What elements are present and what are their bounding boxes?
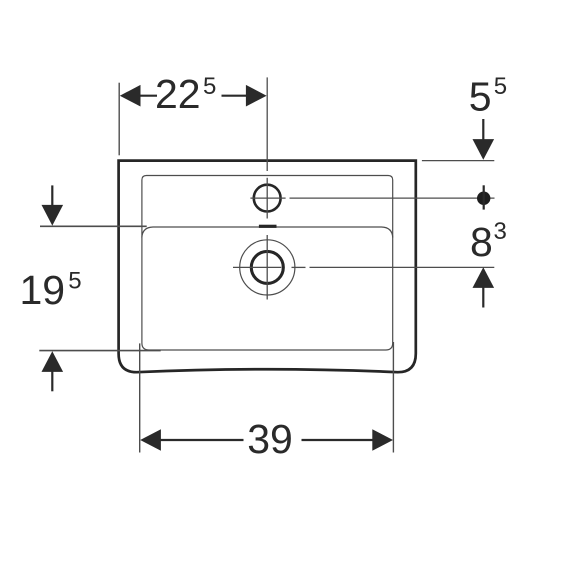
drain inner circle [251,251,283,283]
faucet vertical centerline lower part [266,178,268,219]
dimension 8.3 arrowhead [473,267,495,288]
svg-text:5: 5 [68,268,81,295]
dimension 19.5 bottom reference line [39,350,160,352]
dimension 39 left extension line [139,343,141,452]
basin front edge [142,227,393,238]
dimension 39 left arrowhead [140,429,161,451]
dimension 39 right arrowhead [372,429,393,451]
top edge right extension line [422,160,494,162]
svg-text:39: 39 [247,416,293,462]
svg-text:3: 3 [494,218,507,245]
svg-text:8: 8 [470,219,493,265]
dimension 22.5 line right segment [222,95,248,97]
dimension 19.5 bottom arrowhead [42,351,64,372]
drain horizontal centerline short dash [292,266,306,268]
dimension 39 line right segment [302,439,374,441]
dimension 22.5 line left segment [140,95,158,97]
faucet vertical centerline [266,77,268,171]
dimension 8.3 arrow stem [482,286,484,308]
washbasin outer outline [119,161,416,373]
dimension 22.5 left extension line [118,83,120,156]
dimension 19.5 top arrowhead [42,205,64,226]
overflow slot dash [259,225,277,228]
svg-text:19: 19 [20,267,66,313]
dimension 19.5 top arrow stem [51,185,53,206]
dimension 19.5 top reference line [40,225,147,227]
dimension 22.5 right arrowhead [246,85,267,107]
faucet horizontal crosshair [250,197,285,199]
faucet reference dot [477,192,490,205]
washbasin rim inner line [142,176,393,351]
faucet level line to right reference dot [290,197,495,199]
dimension 39 right extension line [392,342,394,453]
faucet reference dot vertical stub [483,185,485,209]
dimension 5.5 arrowhead [473,139,495,160]
faucet hole circle [254,185,281,212]
dimension 39 line left segment [160,439,244,441]
svg-text:22: 22 [155,71,201,117]
svg-text:5: 5 [469,74,492,120]
drain horizontal centerline segment left [233,266,281,268]
drain outer circle [240,240,295,295]
dimension 5.5 arrow stem [482,119,484,141]
dimension 22.5 left arrowhead [120,85,141,107]
dimension 19.5 bottom arrow stem [51,370,53,391]
drain vertical centerline [266,235,268,300]
svg-text:5: 5 [494,73,507,100]
drain level line to 8.3 arrow [310,266,495,268]
svg-text:5: 5 [203,73,216,100]
